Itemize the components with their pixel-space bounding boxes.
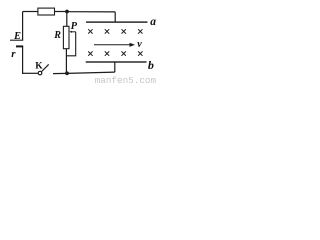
wire up to bottom plate bbox=[114, 62, 116, 72]
node junction dot bottom bbox=[65, 71, 69, 75]
wire switch to bottom node bbox=[53, 72, 67, 74]
wire left vertical lower bbox=[22, 46, 24, 74]
battery E short plate bbox=[16, 45, 23, 47]
wire down to top plate bbox=[114, 12, 116, 22]
wire bottom node to right corner bbox=[67, 72, 115, 73]
capacitor bottom plate b bbox=[86, 61, 147, 62]
wire from resistor to node bbox=[55, 11, 67, 13]
switch K lever bbox=[42, 64, 49, 71]
background bbox=[0, 0, 161, 84]
switch K circle bbox=[38, 71, 42, 75]
svg-text:a: a bbox=[150, 16, 156, 28]
resistor R0 (fixed, unlabeled) bbox=[38, 8, 55, 15]
slider wire down bbox=[66, 32, 75, 56]
magnetic field x symbols row 2 bbox=[88, 51, 142, 55]
rheostat slider arrow bbox=[71, 31, 76, 33]
wire left vertical upper bbox=[22, 12, 24, 41]
svg-text:r: r bbox=[11, 48, 16, 60]
svg-text:K: K bbox=[35, 61, 43, 71]
wire bottom left to switch bbox=[22, 72, 38, 74]
magnetic field x symbols row 1 bbox=[88, 29, 142, 33]
wire node to top-right corner bbox=[67, 11, 115, 13]
wire node down to rheostat bbox=[66, 12, 68, 27]
wire rheostat bottom to bottom node bbox=[65, 49, 67, 74]
node junction dot top bbox=[65, 10, 69, 14]
svg-text:manfen5.com: manfen5.com bbox=[95, 75, 157, 84]
capacitor top plate a bbox=[86, 21, 148, 22]
svg-text:P: P bbox=[71, 21, 78, 32]
battery E long plate bbox=[10, 39, 23, 41]
svg-text:R: R bbox=[53, 30, 61, 41]
svg-text:v: v bbox=[137, 39, 142, 50]
wire top from battery to resistor bbox=[23, 11, 38, 13]
velocity arrow v bbox=[94, 44, 131, 46]
svg-text:b: b bbox=[148, 58, 154, 72]
rheostat R box bbox=[63, 26, 69, 48]
